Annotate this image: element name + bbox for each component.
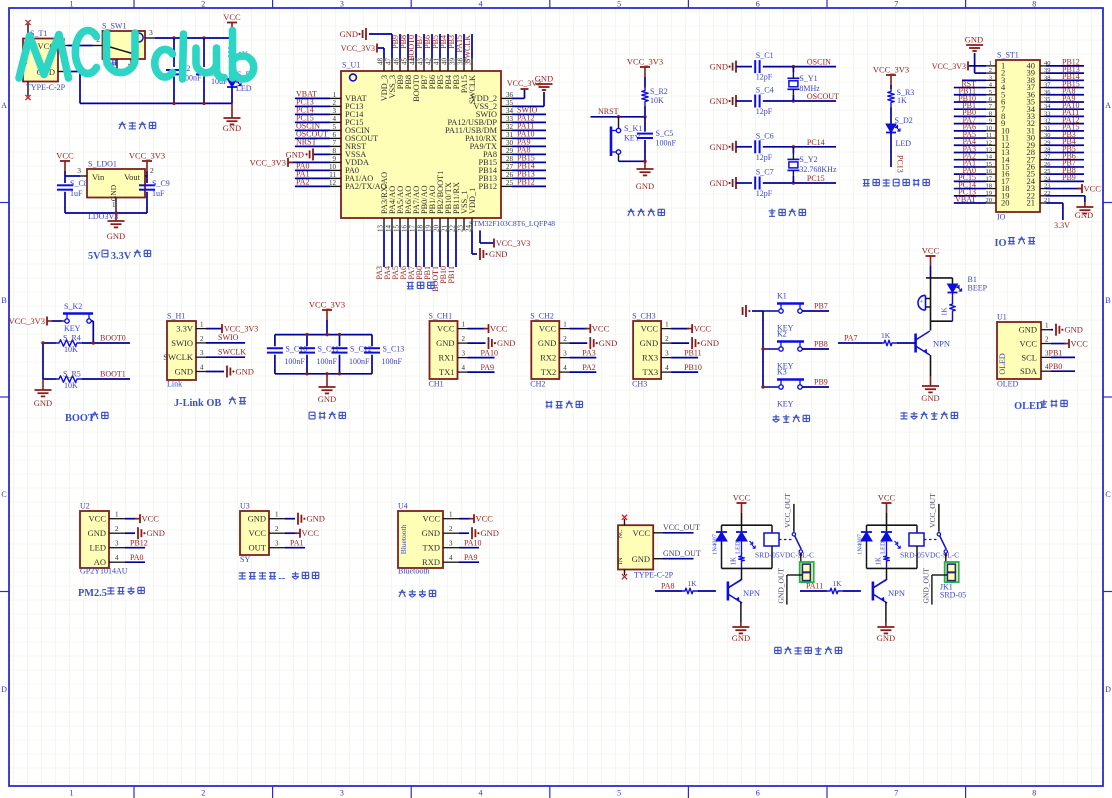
svg-text:BEEP: BEEP [968, 284, 988, 293]
svg-text:12: 12 [329, 179, 337, 187]
svg-text:RX2: RX2 [540, 353, 556, 363]
svg-text:17: 17 [986, 175, 993, 182]
svg-text:12pF: 12pF [756, 153, 773, 162]
svg-text:VCC_3V3: VCC_3V3 [129, 151, 165, 161]
svg-text:GND: GND [921, 393, 939, 403]
svg-text:PB0: PB0 [1049, 362, 1063, 371]
svg-text:1: 1 [333, 91, 337, 99]
svg-text:GND: GND [436, 338, 454, 348]
svg-text:S_K1: S_K1 [624, 124, 642, 133]
svg-text:3: 3 [462, 350, 466, 358]
svg-text:Bluetooth: Bluetooth [398, 567, 430, 576]
svg-text:2: 2 [275, 525, 279, 533]
svg-text:43: 43 [417, 58, 425, 66]
svg-text:VCC_3V3: VCC_3V3 [341, 44, 375, 53]
svg-text:K1: K1 [777, 292, 787, 301]
svg-text:GND: GND [710, 96, 728, 106]
svg-text:S_CH3: S_CH3 [632, 312, 656, 321]
svg-text:TYPE-C-2P: TYPE-C-2P [634, 571, 674, 580]
svg-text:K2: K2 [777, 330, 787, 339]
svg-text:VCC: VCC [302, 528, 320, 538]
svg-text:VCC: VCC [476, 514, 494, 524]
svg-text:VCC_OUT: VCC_OUT [928, 493, 937, 528]
svg-text:GND: GND [318, 394, 336, 404]
svg-text:SRD-05: SRD-05 [940, 591, 966, 600]
svg-text:4: 4 [563, 364, 567, 372]
svg-text:GND: GND [1019, 325, 1037, 335]
svg-text:PA10: PA10 [464, 539, 482, 548]
svg-text:8: 8 [1032, 0, 1036, 9]
svg-text:1: 1 [989, 60, 992, 67]
svg-text:3: 3 [200, 349, 204, 357]
svg-text:S_U1: S_U1 [342, 61, 360, 70]
svg-text:GND: GND [710, 142, 728, 152]
svg-text:2: 2 [462, 335, 466, 343]
svg-text:5: 5 [333, 123, 337, 131]
svg-text:1: 1 [115, 511, 119, 519]
svg-text:18: 18 [986, 183, 993, 190]
svg-text:PB12: PB12 [517, 177, 535, 186]
svg-text:42: 42 [425, 58, 433, 66]
svg-text:21: 21 [1027, 198, 1036, 208]
svg-text:13: 13 [986, 146, 993, 153]
svg-text:4: 4 [333, 115, 337, 123]
svg-text:S_C7: S_C7 [756, 168, 774, 177]
svg-text:4: 4 [479, 789, 483, 798]
svg-text:VCC: VCC [249, 528, 267, 538]
svg-text:OSCOUT: OSCOUT [807, 92, 839, 101]
svg-text:7: 7 [894, 0, 898, 9]
svg-text:S_C8: S_C8 [70, 179, 88, 188]
svg-text:3: 3 [77, 166, 81, 175]
svg-text:1K: 1K [687, 579, 697, 588]
svg-text:S_H1: S_H1 [167, 312, 185, 321]
svg-text:VCC: VCC [1020, 339, 1038, 349]
svg-text:41: 41 [433, 58, 441, 66]
svg-text:VCC_3V3: VCC_3V3 [309, 300, 345, 310]
svg-text:1K: 1K [881, 331, 891, 340]
svg-text:CH3: CH3 [632, 380, 647, 389]
svg-text:Bluetooth: Bluetooth [399, 524, 408, 554]
svg-text:LED: LED [880, 541, 887, 554]
svg-text:PA1: PA1 [290, 539, 304, 548]
svg-text:4: 4 [665, 364, 669, 372]
svg-text:S_R4: S_R4 [63, 334, 81, 343]
svg-text:GND_OUT: GND_OUT [776, 568, 785, 604]
svg-text:1: 1 [275, 511, 279, 519]
svg-text:VCC_3V3: VCC_3V3 [873, 65, 909, 75]
svg-text:+: + [920, 299, 924, 306]
svg-text:10K: 10K [64, 345, 78, 354]
svg-text:PB9: PB9 [1062, 173, 1076, 182]
svg-text:2: 2 [150, 166, 154, 175]
svg-text:39: 39 [449, 58, 457, 66]
svg-text:S_R2: S_R2 [650, 87, 668, 96]
svg-text:4: 4 [449, 554, 453, 562]
svg-text:PA3: PA3 [582, 349, 596, 358]
svg-text:2: 2 [201, 789, 205, 798]
svg-text:3.3V: 3.3V [176, 324, 194, 334]
svg-text:SWCLK: SWCLK [463, 35, 472, 63]
svg-text:46: 46 [393, 58, 401, 66]
svg-text:CH1: CH1 [429, 380, 444, 389]
svg-text:S_C1: S_C1 [756, 51, 774, 60]
svg-text:VCC_OUT: VCC_OUT [663, 523, 700, 532]
svg-text:A: A [1, 101, 7, 110]
svg-text:S_Y2: S_Y2 [799, 155, 817, 164]
svg-text:NRST: NRST [296, 137, 317, 146]
svg-text:GND: GND [710, 178, 728, 188]
svg-text:GND: GND [236, 367, 254, 377]
svg-text:SY: SY [240, 555, 250, 564]
svg-text:AO: AO [94, 557, 106, 567]
svg-text:8: 8 [333, 147, 337, 155]
svg-text:S_CH1: S_CH1 [429, 312, 453, 321]
svg-text:1: 1 [563, 321, 567, 329]
svg-text:U2: U2 [80, 502, 90, 511]
svg-text:PB7: PB7 [814, 302, 828, 311]
svg-text:BOOT1: BOOT1 [100, 370, 126, 379]
svg-text:32.768KHz: 32.768KHz [799, 165, 837, 174]
svg-text:SRD-05VDC-SL-C: SRD-05VDC-SL-C [755, 551, 814, 560]
svg-text:OLED: OLED [997, 380, 1019, 389]
svg-text:4: 4 [479, 0, 483, 9]
svg-text:3.3V: 3.3V [1054, 221, 1070, 230]
svg-text:3: 3 [340, 789, 344, 798]
svg-text:10: 10 [329, 163, 337, 171]
svg-text:11: 11 [986, 132, 992, 139]
svg-text:1uF: 1uF [152, 189, 165, 198]
svg-text:GND_OUT: GND_OUT [663, 549, 701, 558]
svg-text:1: 1 [462, 321, 466, 329]
svg-text:GND: GND [175, 367, 193, 377]
svg-text:3: 3 [989, 74, 992, 81]
svg-text:1K: 1K [729, 557, 737, 566]
svg-text:B: B [1, 296, 6, 305]
svg-text:IO: IO [997, 213, 1006, 222]
svg-text:BOOT: BOOT [65, 413, 95, 424]
svg-text:Vin: Vin [92, 172, 105, 182]
svg-text:GND: GND [640, 338, 658, 348]
svg-text:VCC_3V3: VCC_3V3 [496, 239, 530, 248]
svg-text:19: 19 [986, 190, 993, 197]
svg-text:9: 9 [989, 118, 992, 125]
svg-text:B: B [1105, 296, 1110, 305]
svg-text:VCC: VCC [633, 528, 651, 538]
svg-text:2: 2 [989, 67, 992, 74]
svg-text:GND: GND [107, 231, 125, 241]
svg-text:PB9: PB9 [814, 378, 828, 387]
svg-text:8: 8 [1032, 789, 1036, 798]
svg-text:PA8: PA8 [661, 582, 675, 591]
svg-text:VCC_3V3: VCC_3V3 [250, 157, 286, 167]
svg-text:S_ST1: S_ST1 [997, 51, 1019, 60]
svg-text:GND: GND [88, 528, 106, 538]
svg-text:C: C [1105, 490, 1110, 499]
svg-text:TYPE-C-2P: TYPE-C-2P [26, 83, 66, 92]
svg-text:SRD-05VDC-SL-C: SRD-05VDC-SL-C [900, 551, 959, 560]
svg-text:VDD_1: VDD_1 [468, 188, 477, 214]
svg-text:OSCIN: OSCIN [807, 58, 831, 67]
svg-text:PA9: PA9 [481, 363, 495, 372]
svg-text:PM2.5: PM2.5 [78, 588, 107, 599]
svg-text:SWCLK: SWCLK [218, 347, 246, 356]
svg-text:100nF: 100nF [382, 357, 403, 366]
svg-text:GND: GND [340, 29, 358, 39]
svg-text:GND: GND [965, 35, 983, 45]
svg-text:VCC_3V3: VCC_3V3 [9, 316, 45, 326]
svg-text:VCC: VCC [641, 324, 659, 334]
svg-text:S_SW1: S_SW1 [102, 22, 126, 31]
svg-text:6: 6 [333, 131, 337, 139]
svg-text:SWIO: SWIO [171, 338, 193, 348]
svg-text:U1: U1 [997, 313, 1007, 322]
svg-text:2: 2 [200, 335, 204, 343]
svg-text:3: 3 [275, 540, 279, 548]
svg-text:OLED: OLED [998, 353, 1007, 375]
svg-text:1K: 1K [832, 579, 842, 588]
svg-text:GND: GND [1065, 325, 1083, 335]
svg-text:2: 2 [449, 525, 453, 533]
svg-text:PB12: PB12 [479, 182, 497, 191]
svg-text:1: 1 [70, 0, 74, 9]
svg-text:7: 7 [894, 789, 898, 798]
svg-text:VCC: VCC [539, 324, 557, 334]
svg-text:NRST: NRST [598, 107, 619, 116]
svg-text:GND: GND [1075, 210, 1093, 220]
svg-text:2: 2 [333, 99, 337, 107]
svg-text:VCC: VCC [56, 151, 74, 161]
svg-text:2: 2 [201, 0, 205, 9]
svg-text:3: 3 [333, 107, 337, 115]
svg-text:VCC: VCC [89, 514, 107, 524]
svg-text:TX3: TX3 [643, 367, 659, 377]
svg-text:3: 3 [149, 28, 153, 37]
svg-text:U4: U4 [398, 502, 408, 511]
svg-text:SWCLK: SWCLK [468, 75, 477, 104]
svg-text:VCC_3V3: VCC_3V3 [627, 57, 663, 67]
svg-text:6: 6 [756, 789, 760, 798]
svg-text:U3: U3 [240, 502, 250, 511]
svg-text:S_C6: S_C6 [756, 131, 774, 140]
svg-text:D: D [1105, 685, 1111, 694]
svg-text:4: 4 [462, 364, 466, 372]
svg-text:1: 1 [665, 321, 669, 329]
svg-text:PA0: PA0 [130, 553, 144, 562]
svg-text:12: 12 [986, 139, 993, 146]
svg-text:GND: GND [223, 123, 241, 133]
svg-text:GND: GND [422, 528, 440, 538]
svg-text:IO: IO [994, 238, 1006, 249]
svg-text:1K: 1K [874, 557, 882, 566]
svg-text:1N4007: 1N4007 [712, 533, 719, 555]
svg-text:Link: Link [167, 380, 182, 389]
svg-text:9: 9 [333, 155, 337, 163]
svg-text:PA11: PA11 [806, 582, 823, 591]
svg-text:BOOT0: BOOT0 [100, 334, 126, 343]
svg-text:5: 5 [989, 89, 992, 96]
svg-text:S_CH2: S_CH2 [530, 312, 554, 321]
svg-text:PA7: PA7 [844, 334, 858, 343]
svg-text:3: 3 [563, 350, 567, 358]
svg-text:20: 20 [986, 197, 993, 204]
svg-text:10: 10 [986, 125, 993, 132]
svg-text:3: 3 [340, 0, 344, 9]
svg-text:GND: GND [307, 514, 325, 524]
svg-text:10K: 10K [650, 96, 664, 105]
svg-text:VCC: VCC [922, 246, 940, 256]
svg-text:2: 2 [115, 525, 119, 533]
svg-text:1K: 1K [941, 307, 949, 316]
svg-text:TX1: TX1 [439, 367, 455, 377]
svg-text:KEY: KEY [777, 400, 794, 409]
svg-text:C: C [1, 490, 6, 499]
svg-text:OUT: OUT [249, 543, 267, 553]
svg-text:GND: GND [248, 514, 266, 524]
svg-text:GND: GND [481, 528, 499, 538]
svg-text:4: 4 [200, 364, 204, 372]
svg-text:S_R5: S_R5 [63, 370, 81, 379]
svg-text:PA10: PA10 [481, 349, 499, 358]
svg-text:PC15: PC15 [807, 174, 825, 183]
svg-text:GND: GND [497, 338, 515, 348]
svg-text:VCC: VCC [1071, 339, 1089, 349]
svg-text:S_Y1: S_Y1 [799, 74, 817, 83]
svg-text:1: 1 [112, 201, 116, 209]
svg-text:12pF: 12pF [756, 189, 773, 198]
svg-text:S_C13: S_C13 [383, 345, 405, 354]
svg-text:S_K2: S_K2 [64, 302, 82, 311]
svg-text:GP2Y1014AU: GP2Y1014AU [80, 567, 128, 576]
svg-text:GND_OUT: GND_OUT [921, 568, 930, 604]
svg-text:LDO3V3: LDO3V3 [88, 212, 118, 221]
svg-text:S_C9: S_C9 [152, 179, 170, 188]
svg-text:PB10: PB10 [684, 363, 702, 372]
svg-text:1N4007: 1N4007 [857, 533, 864, 555]
svg-text:4: 4 [115, 554, 119, 562]
svg-text:20: 20 [1001, 198, 1010, 208]
svg-text:7: 7 [333, 139, 337, 147]
svg-text:GND: GND [636, 181, 654, 191]
svg-text:2: 2 [665, 335, 669, 343]
svg-text:GND: GND [877, 633, 895, 643]
svg-text:SWCLK: SWCLK [163, 352, 194, 362]
svg-text:5: 5 [617, 0, 621, 9]
svg-text:VCC: VCC [733, 493, 751, 503]
svg-text:VCC: VCC [1084, 184, 1102, 194]
svg-text:GND: GND [710, 62, 728, 72]
svg-text:VBAT: VBAT [955, 195, 976, 204]
svg-text:RX3: RX3 [642, 353, 658, 363]
svg-text:PB1: PB1 [1049, 348, 1063, 357]
svg-text:100nF: 100nF [656, 139, 677, 148]
svg-text:10K: 10K [64, 381, 78, 390]
svg-text:VCC: VCC [423, 514, 441, 524]
svg-text:OLED: OLED [1014, 401, 1043, 412]
svg-text:TX2: TX2 [541, 367, 557, 377]
svg-text:GND: GND [489, 249, 507, 259]
svg-text:1: 1 [70, 789, 74, 798]
svg-text:2: 2 [563, 335, 567, 343]
svg-text:8MHz: 8MHz [799, 84, 820, 93]
svg-text:NPN: NPN [888, 588, 905, 598]
svg-text:1K: 1K [897, 96, 907, 105]
svg-text:RX1: RX1 [438, 353, 454, 363]
svg-text:GND: GND [538, 338, 556, 348]
svg-text:LED: LED [236, 84, 252, 93]
svg-text:PB11: PB11 [684, 349, 702, 358]
svg-text:GND: GND [632, 554, 650, 564]
svg-text:STM32F103C8T6_LQFP48: STM32F103C8T6_LQFP48 [469, 219, 555, 228]
svg-text:40: 40 [441, 58, 449, 66]
svg-text:NPN: NPN [933, 339, 950, 349]
svg-text:S_C5: S_C5 [656, 129, 674, 138]
svg-text:11: 11 [329, 171, 336, 179]
svg-text:K3: K3 [777, 368, 787, 377]
svg-text:16: 16 [986, 168, 993, 175]
svg-text:VCC_OUT: VCC_OUT [783, 493, 792, 528]
svg-text:3: 3 [665, 350, 669, 358]
svg-text:SWIO: SWIO [218, 333, 239, 342]
svg-text:5V: 5V [88, 251, 101, 262]
svg-text:GND: GND [732, 633, 750, 643]
svg-text:Vout: Vout [124, 172, 141, 182]
svg-text:NC: NC [617, 529, 624, 538]
svg-text:100nF: 100nF [317, 357, 338, 366]
svg-text:1uF: 1uF [70, 189, 83, 198]
svg-text:100nF: 100nF [284, 357, 305, 366]
svg-text:VCC: VCC [142, 514, 160, 524]
svg-text:1: 1 [200, 321, 204, 329]
svg-text:12pF: 12pF [756, 73, 773, 82]
svg-text:S_C4: S_C4 [756, 86, 774, 95]
svg-text:VCC: VCC [437, 324, 455, 334]
svg-text:GND: GND [535, 74, 553, 84]
svg-text:SDA: SDA [1020, 366, 1038, 376]
svg-text:CH2: CH2 [530, 380, 545, 389]
svg-text:PB12: PB12 [130, 539, 148, 548]
svg-text:VCC_3V3: VCC_3V3 [932, 62, 966, 71]
svg-text:S_LDO1: S_LDO1 [88, 160, 117, 169]
svg-text:PA2: PA2 [296, 177, 310, 186]
svg-text:GND: GND [599, 338, 617, 348]
svg-text:A: A [1105, 101, 1111, 110]
svg-text:PC13: PC13 [896, 155, 905, 173]
svg-text:8: 8 [989, 110, 992, 117]
svg-text:SCL: SCL [1021, 352, 1037, 362]
svg-text:VCC: VCC [223, 12, 241, 22]
svg-text:PC14: PC14 [807, 138, 825, 147]
svg-text:47: 47 [385, 58, 393, 66]
svg-text:PB8: PB8 [814, 340, 828, 349]
svg-text:23: 23 [457, 225, 465, 233]
svg-text:PB11: PB11 [447, 266, 456, 284]
svg-text:PA2: PA2 [582, 363, 596, 372]
svg-text:3.3V: 3.3V [111, 251, 132, 262]
svg-text:VCC: VCC [592, 324, 610, 334]
svg-text:RXD: RXD [422, 557, 440, 567]
svg-text:VCC: VCC [694, 324, 712, 334]
svg-text:D: D [1, 685, 7, 694]
svg-text:GND: GND [147, 528, 165, 538]
svg-text:1: 1 [449, 511, 453, 519]
svg-text:3: 3 [115, 540, 119, 548]
svg-text:KEY: KEY [64, 324, 81, 333]
svg-text:NPN: NPN [743, 588, 760, 598]
svg-text:VCC: VCC [490, 324, 508, 334]
svg-text:LED: LED [896, 139, 912, 148]
svg-text:J-Link OB: J-Link OB [174, 398, 221, 409]
